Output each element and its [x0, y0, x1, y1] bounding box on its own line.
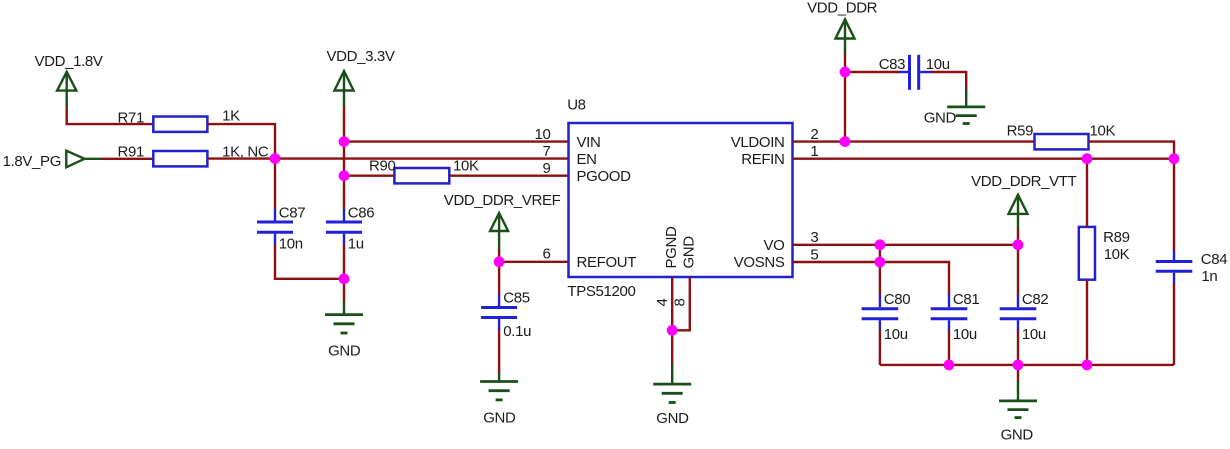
- svg-text:C85: C85: [503, 290, 529, 307]
- capacitor C80: [862, 295, 899, 332]
- wire REFIN pin 1: [793, 157, 1175, 159]
- power flag VDD_1.8V: [35, 53, 103, 108]
- node C83 branch junction: [840, 67, 851, 78]
- capacitor C86: [326, 209, 362, 245]
- wire C86 to ground: [343, 244, 345, 302]
- svg-text:VIN: VIN: [577, 134, 601, 151]
- svg-text:GND: GND: [483, 409, 516, 426]
- svg-text:VLDOIN: VLDOIN: [731, 134, 785, 151]
- svg-text:10u: 10u: [926, 56, 950, 73]
- power flag VDD_DDR: [807, 0, 878, 55]
- node VOSNS C80 junction: [875, 257, 886, 268]
- ground GND at C85: [480, 373, 518, 426]
- node EN junction: [270, 153, 281, 164]
- svg-text:U8: U8: [567, 96, 585, 113]
- svg-text:VO: VO: [764, 237, 785, 254]
- svg-text:10K: 10K: [1090, 123, 1116, 140]
- svg-text:10u: 10u: [1022, 326, 1046, 343]
- svg-text:VDD_DDR: VDD_DDR: [807, 0, 878, 16]
- svg-text:0.1u: 0.1u: [503, 323, 531, 340]
- wire node to C83: [845, 71, 900, 73]
- node PGND-GND junction: [667, 325, 678, 336]
- capacitor C81: [931, 295, 968, 332]
- wire pin 8 GND down and left: [672, 277, 690, 330]
- svg-text:R59: R59: [1007, 123, 1033, 140]
- capacitor C87: [257, 209, 293, 245]
- svg-text:GND: GND: [924, 110, 957, 127]
- wire REFIN node to C84: [1173, 159, 1175, 251]
- svg-text:4: 4: [654, 299, 671, 307]
- svg-text:3: 3: [810, 229, 818, 246]
- svg-text:1u: 1u: [348, 236, 364, 253]
- svg-text:R91: R91: [118, 143, 144, 160]
- wire VIN to pin 10: [344, 140, 569, 142]
- svg-text:1K: 1K: [222, 108, 240, 125]
- power flag VDD_3.3V: [327, 48, 395, 107]
- svg-text:10K: 10K: [453, 158, 479, 175]
- resistor R90: [394, 168, 449, 183]
- svg-text:R71: R71: [118, 109, 144, 126]
- resistor R91: [153, 151, 207, 166]
- svg-text:6: 6: [543, 246, 551, 263]
- node C86 ground junction: [339, 273, 350, 284]
- svg-text:GND: GND: [1001, 427, 1034, 444]
- svg-text:REFOUT: REFOUT: [577, 254, 637, 271]
- wire R90 to PGOOD pin 9: [449, 174, 568, 176]
- svg-text:10u: 10u: [953, 326, 977, 343]
- svg-text:GND: GND: [656, 410, 689, 427]
- wire R91 to EN pin 7: [207, 157, 568, 159]
- wire VDD_DDR down to VLDOIN: [844, 54, 846, 142]
- svg-text:PGND: PGND: [663, 226, 680, 268]
- wire VDD_3.3V down to C86: [343, 106, 345, 209]
- svg-text:7: 7: [543, 143, 551, 160]
- wire C84 to bus: [1173, 284, 1175, 365]
- node REFOUT junction: [494, 256, 505, 267]
- svg-text:1.8V_PG: 1.8V_PG: [3, 153, 61, 170]
- node bus R89 junction: [1082, 360, 1093, 371]
- wire C82 from VO node: [1017, 245, 1019, 296]
- wire R59 to REFIN line: [1089, 142, 1175, 159]
- svg-text:8: 8: [672, 299, 689, 307]
- svg-text:C82: C82: [1022, 291, 1048, 308]
- wire VTT down to VO line: [1017, 228, 1019, 245]
- wire VDD_1.8V to R71: [67, 107, 154, 125]
- svg-text:VOSNS: VOSNS: [734, 254, 785, 271]
- svg-text:C83: C83: [879, 56, 905, 73]
- svg-text:VDD_DDR_VTT: VDD_DDR_VTT: [971, 173, 1077, 190]
- IC U8 TPS51200 body: [569, 123, 793, 277]
- ground GND at C83: [924, 89, 985, 127]
- wire 3.3V to R90: [344, 174, 394, 176]
- svg-text:1n: 1n: [1201, 268, 1217, 285]
- svg-text:9: 9: [543, 160, 551, 177]
- node bus C81 junction: [944, 360, 955, 371]
- capacitor C83: [899, 55, 931, 90]
- svg-text:C87: C87: [279, 204, 305, 221]
- node REFIN C84 junction: [1169, 153, 1180, 164]
- capacitor C82: [1000, 295, 1037, 332]
- svg-text:10: 10: [535, 126, 551, 143]
- svg-text:EN: EN: [577, 151, 597, 168]
- node VLDOIN junction: [840, 136, 851, 147]
- node PGOOD pullup junction: [339, 170, 350, 181]
- node VO VTT junction: [1013, 239, 1024, 250]
- svg-text:GND: GND: [328, 343, 361, 360]
- svg-text:VDD_3.3V: VDD_3.3V: [327, 48, 395, 65]
- ground GND at bus: [999, 381, 1037, 444]
- wire REFOUT node down to C85: [498, 262, 500, 296]
- power flag VDD_DDR_VREF: [444, 192, 561, 251]
- svg-text:R90: R90: [369, 157, 395, 174]
- svg-text:C84: C84: [1201, 251, 1227, 268]
- resistor R71: [153, 117, 207, 132]
- wire C83 to ground: [931, 72, 967, 90]
- node bus C82 junction: [1013, 360, 1024, 371]
- svg-text:C81: C81: [953, 291, 979, 308]
- svg-text:GND: GND: [681, 236, 698, 269]
- resistor R89: [1079, 227, 1095, 280]
- svg-text:R89: R89: [1103, 229, 1129, 246]
- svg-text:VDD_DDR_VREF: VDD_DDR_VREF: [444, 192, 561, 209]
- node VIN junction: [339, 136, 350, 147]
- capacitor C84: [1156, 249, 1193, 284]
- wire VLDOIN pin 2 to R59: [793, 140, 1035, 142]
- svg-text:C86: C86: [348, 204, 374, 221]
- svg-text:C80: C80: [884, 291, 910, 308]
- wire bottom ground bus: [880, 364, 1174, 366]
- svg-text:10K: 10K: [1104, 246, 1130, 263]
- svg-text:REFIN: REFIN: [741, 151, 784, 168]
- wire R89 to bus: [1086, 280, 1088, 365]
- port 1.8V_PG: [3, 151, 103, 170]
- svg-text:TPS51200: TPS51200: [567, 283, 635, 300]
- wire bus to ground: [1017, 365, 1019, 382]
- wire C81 to bus: [948, 330, 950, 365]
- ground GND at C86: [325, 301, 363, 360]
- wire VO pin 3: [793, 244, 1019, 246]
- wire C80 branch vertical: [879, 245, 881, 296]
- wire pin 4 PGND down: [671, 277, 673, 365]
- wire node EN down to C87: [274, 159, 276, 210]
- wire REFIN to R89: [1086, 159, 1088, 227]
- wire C87 to ground bus: [275, 244, 344, 279]
- svg-text:PGOOD: PGOOD: [577, 168, 632, 185]
- resistor R59: [1035, 134, 1089, 149]
- capacitor C85: [481, 295, 517, 331]
- wire R71 to node EN: [207, 124, 275, 159]
- svg-text:10u: 10u: [884, 326, 908, 343]
- node VO C80 junction: [875, 239, 886, 250]
- wire VOSNS pin 5: [793, 262, 950, 296]
- svg-text:1: 1: [810, 143, 818, 160]
- power flag VDD_DDR_VTT: [971, 173, 1077, 229]
- node REFIN R89 junction: [1082, 153, 1093, 164]
- svg-text:2: 2: [810, 126, 818, 143]
- wire C82 to bus: [1017, 330, 1019, 365]
- ground GND at pins 4 8: [653, 364, 691, 428]
- svg-text:VDD_1.8V: VDD_1.8V: [35, 53, 103, 70]
- wire 1.8V_PG to R91: [102, 158, 154, 160]
- wire VREF to REFOUT pin 6: [499, 250, 568, 262]
- svg-text:10n: 10n: [279, 236, 303, 253]
- wire C85 to ground: [498, 330, 500, 375]
- wire C80 to bus: [879, 330, 881, 365]
